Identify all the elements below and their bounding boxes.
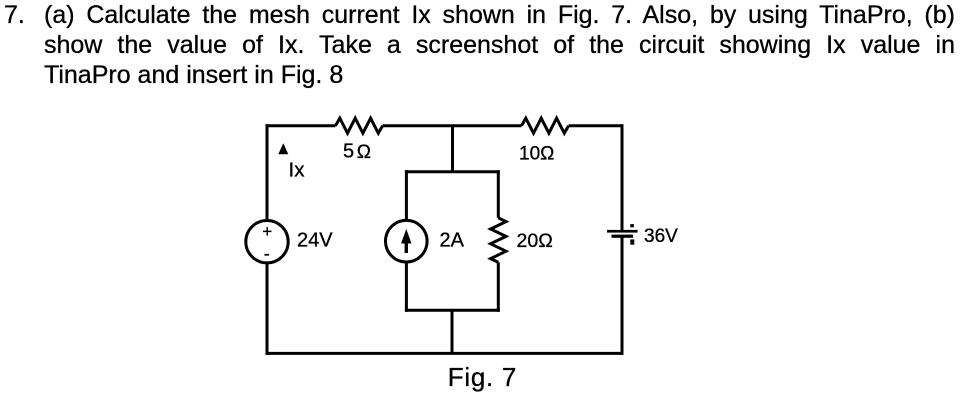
wire inner loop left lower: [405, 263, 408, 312]
wire right vertical lower segment (from battery): [621, 237, 624, 355]
wire inner loop right lower: [497, 262, 500, 311]
wire middle vertical upper (node A to inner loop top): [451, 126, 454, 172]
wire left vertical upper segment: [266, 124, 269, 219]
wire top horizontal right segment: [569, 124, 624, 127]
svg-text:36V: 36V: [644, 226, 678, 247]
wire right vertical upper segment (to battery): [621, 124, 624, 230]
wire left vertical lower segment: [266, 264, 269, 355]
svg-text:Fig. 7: Fig. 7: [448, 362, 517, 392]
current source I1 arrow: [401, 229, 411, 253]
svg-text:Ix: Ix: [289, 158, 306, 181]
svg-text:2A: 2A: [440, 230, 465, 252]
current source I1 2A circle: [386, 220, 428, 262]
battery V2 36V short thick plate: [612, 235, 634, 238]
resistor R2 10Ω zigzag: [522, 118, 569, 133]
svg-text:-: -: [264, 244, 270, 264]
svg-text:Ω: Ω: [357, 142, 371, 163]
resistor R3 20Ω zigzag (vertical): [491, 218, 506, 263]
battery V2 polarity dash mark: [630, 239, 634, 244]
wire inner loop top: [405, 170, 500, 173]
svg-text:10Ω: 10Ω: [519, 143, 554, 164]
wire inner loop bottom: [405, 309, 500, 312]
svg-text:20Ω: 20Ω: [517, 230, 553, 252]
wire middle vertical lower (inner loop bottom to bottom wire): [451, 310, 454, 353]
wire inner loop right upper: [497, 170, 500, 218]
svg-text:5: 5: [343, 141, 354, 163]
resistor R1 5Ω zigzag: [336, 118, 383, 133]
wire inner loop left upper: [405, 170, 408, 220]
voltage source V1 24V circle: [246, 221, 288, 263]
wire top horizontal middle segment: [383, 124, 522, 127]
wire bottom horizontal segment: [266, 352, 624, 355]
mesh current arrow Ix (triangle): [278, 143, 288, 154]
svg-text:+: +: [262, 222, 272, 241]
svg-text:24V: 24V: [297, 230, 333, 252]
wire top horizontal left segment: [266, 124, 336, 127]
battery V2 36V long plate: [607, 230, 638, 233]
battery V2 polarity dot mark: [630, 224, 634, 227]
